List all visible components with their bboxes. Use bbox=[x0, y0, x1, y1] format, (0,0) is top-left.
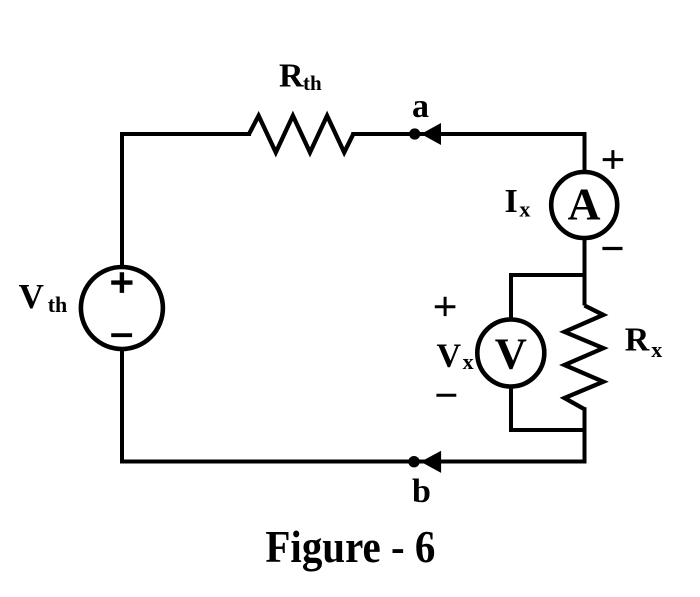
svg-text:R: R bbox=[625, 322, 650, 359]
svg-text:V: V bbox=[19, 277, 44, 316]
wire parallel top horizontal bbox=[511, 273, 585, 277]
label R_x bbox=[625, 322, 663, 362]
label V_th bbox=[19, 277, 68, 317]
label I_x bbox=[505, 183, 531, 222]
svg-text:I: I bbox=[505, 183, 518, 220]
node a bbox=[409, 128, 420, 139]
svg-text:x: x bbox=[463, 349, 474, 374]
wire top-left horizontal bbox=[122, 132, 249, 136]
svg-text:V: V bbox=[495, 329, 527, 379]
minus mark ammeter bbox=[602, 247, 622, 250]
wire bottom horizontal bbox=[122, 460, 585, 464]
svg-text:th: th bbox=[48, 292, 68, 317]
svg-text:R: R bbox=[279, 58, 304, 95]
voltage source V_th bbox=[81, 267, 163, 349]
svg-text:b: b bbox=[412, 473, 431, 510]
plus mark source bbox=[111, 272, 132, 293]
current arrow at node a bbox=[421, 123, 441, 145]
wire left-top vertical bbox=[120, 132, 124, 268]
plus mark V_x bbox=[435, 297, 456, 316]
ammeter U1 bbox=[551, 172, 617, 238]
wire top-right horizontal bbox=[353, 132, 584, 136]
minus mark V_x bbox=[436, 394, 456, 397]
label R_th bbox=[279, 58, 322, 96]
wire right-top vertical bbox=[583, 132, 587, 174]
voltmeter U2 bbox=[477, 320, 544, 387]
svg-text:Figure - 6: Figure - 6 bbox=[265, 521, 435, 572]
wire voltmeter top vertical bbox=[509, 273, 513, 321]
plus mark ammeter bbox=[603, 150, 624, 169]
resistor R_x bbox=[565, 306, 604, 410]
svg-text:A: A bbox=[568, 179, 601, 230]
current arrow at node b bbox=[421, 451, 441, 473]
svg-text:a: a bbox=[412, 88, 429, 125]
wire right-bottom vertical bbox=[583, 409, 587, 461]
svg-text:th: th bbox=[303, 71, 322, 95]
label V_x bbox=[437, 338, 474, 375]
wire voltmeter bottom vertical bbox=[509, 385, 513, 430]
resistor R_th bbox=[249, 116, 353, 153]
wire left-bottom vertical bbox=[120, 349, 124, 462]
svg-text:x: x bbox=[651, 337, 662, 362]
minus mark source bbox=[111, 333, 132, 337]
svg-text:V: V bbox=[437, 338, 462, 375]
wire ammeter to R_x bbox=[583, 237, 587, 306]
wire parallel bottom horizontal bbox=[511, 428, 585, 432]
svg-text:x: x bbox=[519, 197, 530, 222]
node b bbox=[408, 456, 419, 467]
